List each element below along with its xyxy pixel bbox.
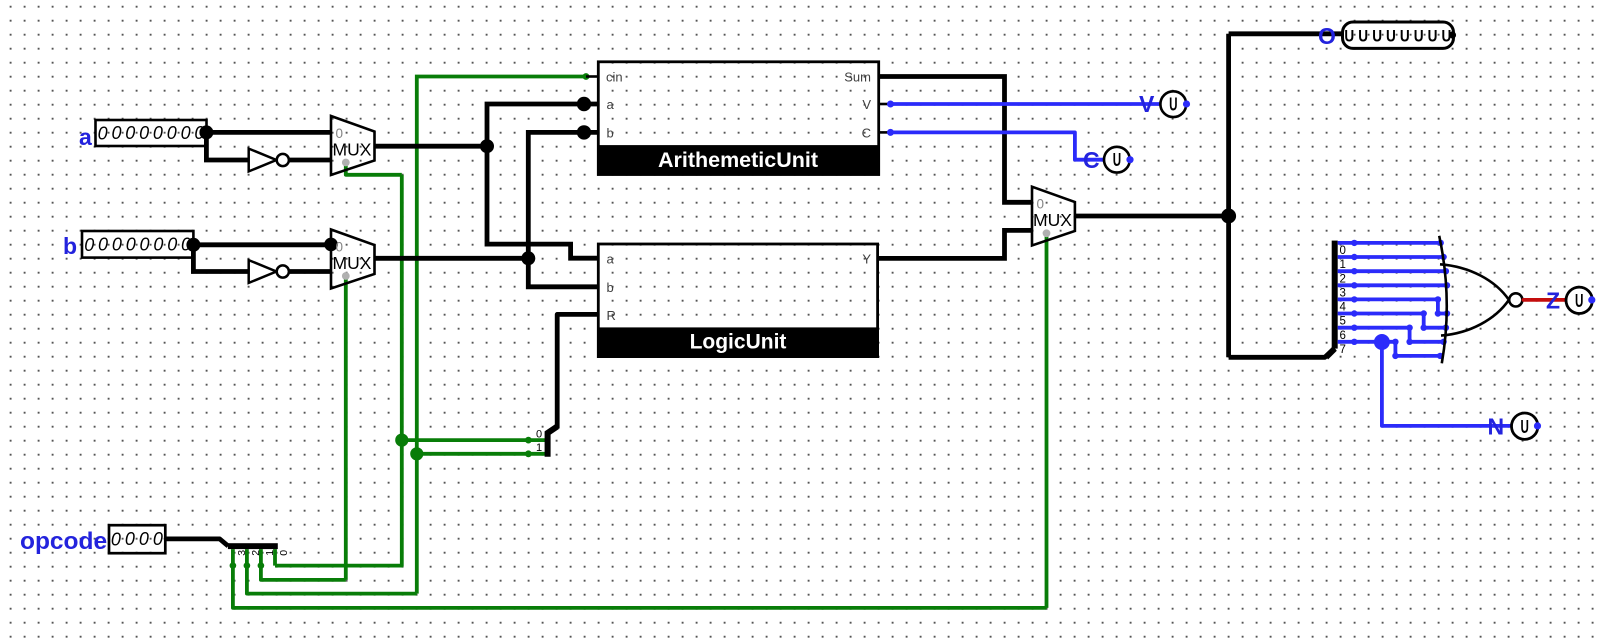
- svg-text:0: 0: [84, 235, 94, 255]
- wire Sum to MUX3 input0: [879, 77, 1032, 203]
- svg-text:0: 0: [126, 235, 136, 255]
- wire MUX1 select green: [346, 164, 402, 175]
- junction bit7: [1374, 334, 1390, 350]
- probe V value: [1169, 95, 1177, 115]
- wire MUX3 output: [1075, 214, 1229, 219]
- NOR gate U6 body: [1440, 264, 1509, 335]
- probe V circle: [1160, 91, 1186, 117]
- svg-text:0: 0: [181, 123, 191, 143]
- wire a down to NOT gate: [206, 132, 248, 160]
- probe N pin dot: [1534, 422, 1541, 429]
- svg-text:ArithemeticUnit: ArithemeticUnit: [658, 148, 818, 172]
- LogicUnit U5 body: [598, 244, 877, 357]
- wire Y to MUX3 input1: [878, 230, 1032, 258]
- wire NOT b to MUX2 input1: [289, 269, 331, 274]
- probe Z circle: [1566, 287, 1592, 313]
- opcode pin stubs green: [233, 549, 275, 566]
- wire b to MUX2 input0: [193, 242, 331, 247]
- V wire end dot: [887, 101, 894, 108]
- svg-text:0: 0: [125, 529, 135, 549]
- wire MUX2 net up to ALU b: [528, 132, 598, 258]
- wire MUX1 out up to ALU a: [487, 104, 598, 146]
- svg-text:0: 0: [139, 123, 149, 143]
- svg-text:MUX: MUX: [333, 140, 372, 160]
- svg-text:MUX: MUX: [1033, 210, 1072, 230]
- wire N blue: [1382, 342, 1511, 426]
- input b switch box: [82, 231, 193, 258]
- svg-text:opcode: opcode: [20, 528, 107, 555]
- wire MUX2 select green down: [344, 278, 348, 580]
- wire opcode to splitter: [165, 539, 228, 546]
- bus wire to O output: [1229, 31, 1343, 36]
- NOR jog corner dots: [1392, 296, 1441, 359]
- junction b: [186, 238, 200, 252]
- wire MUX1 output: [375, 144, 488, 149]
- cin stub: [586, 75, 598, 78]
- probe N value: [1520, 417, 1528, 437]
- svg-text:b: b: [607, 280, 614, 295]
- svg-text:0: 0: [125, 123, 135, 143]
- svg-text:0: 0: [139, 235, 149, 255]
- svg-text:MUX: MUX: [333, 253, 372, 273]
- splitter bus bar: [1332, 241, 1338, 349]
- splitter bit labels: [1340, 245, 1347, 356]
- svg-text:Y: Y: [862, 252, 871, 267]
- combiner stub 1: [528, 452, 545, 456]
- svg-text:0: 0: [167, 123, 177, 143]
- svg-text:U: U: [1358, 27, 1368, 46]
- probe Z value: [1575, 291, 1583, 311]
- svg-text:C: C: [862, 126, 871, 141]
- probe Z pin dot: [1588, 296, 1595, 303]
- junction MUX1 out: [480, 139, 494, 153]
- mux U2 body: [331, 230, 375, 289]
- mux U3 body: [1032, 187, 1075, 246]
- svg-text:U: U: [1520, 417, 1528, 437]
- svg-text:7: 7: [1340, 344, 1346, 356]
- combiner wire 1 end dot: [525, 450, 532, 457]
- junction b at MUX2 input0: [324, 238, 338, 252]
- svg-text:N: N: [1488, 414, 1505, 440]
- svg-text:0: 0: [153, 235, 163, 255]
- wire bit0: [1338, 241, 1441, 245]
- wire opcode bit1 to MUX2 select: [261, 566, 346, 580]
- NOR gate U6 bubble: [1509, 293, 1522, 306]
- wire MUX1 out down to LogicUnit a: [487, 146, 598, 258]
- combiner splitter input 0 wire green: [402, 438, 529, 442]
- svg-text:V: V: [1139, 91, 1155, 117]
- wire NOT a to MUX1 input1: [289, 158, 331, 163]
- svg-text:1: 1: [264, 550, 276, 556]
- svg-text:U: U: [1169, 95, 1177, 115]
- wire bit5: [1338, 314, 1446, 328]
- C pin stub: [879, 131, 891, 134]
- svg-text:U: U: [1428, 27, 1438, 46]
- wire bit6: [1338, 328, 1444, 342]
- junction green bit0: [395, 434, 408, 447]
- NOR input end dots: [1437, 240, 1450, 359]
- svg-text:0: 0: [112, 235, 122, 255]
- svg-text:a: a: [79, 124, 92, 150]
- svg-text:R: R: [607, 308, 616, 323]
- junction green bit2 line: [410, 447, 423, 460]
- mux U3 select pin dot: [1043, 229, 1051, 237]
- bus wire to splitter: [1229, 348, 1335, 357]
- svg-text:0: 0: [98, 235, 108, 255]
- wire MUX2 output: [375, 256, 529, 261]
- combiner splitter input 1 wire green: [417, 452, 529, 456]
- wire opcode bit3 to MUX3 select: [233, 566, 1047, 608]
- opcode pin end dots: [230, 562, 265, 569]
- svg-text:U: U: [1344, 27, 1354, 46]
- svg-text:U: U: [1386, 27, 1396, 46]
- svg-text:LogicUnit: LogicUnit: [690, 331, 787, 354]
- splitter pin end dots: [1351, 240, 1357, 345]
- junction MUX3 out bus: [1221, 209, 1236, 224]
- output O display box: [1343, 22, 1454, 48]
- svg-text:0: 0: [167, 235, 177, 255]
- combiner stub 0: [528, 438, 545, 442]
- input a bit values: [98, 123, 205, 144]
- svg-text:Z: Z: [1546, 288, 1560, 314]
- svg-text:0: 0: [111, 123, 121, 143]
- svg-text:b: b: [63, 233, 77, 259]
- svg-text:U: U: [1400, 27, 1410, 46]
- wire C blue: [891, 132, 1105, 159]
- svg-text:U: U: [1575, 291, 1583, 311]
- wire MUX3 select green down: [1045, 235, 1049, 608]
- probe V pin dot: [1183, 100, 1190, 107]
- svg-text:cin: cin: [606, 70, 623, 85]
- svg-text:0: 0: [139, 529, 149, 549]
- svg-text:Sum: Sum: [844, 70, 871, 85]
- mux U1 select pin dot: [342, 159, 350, 167]
- wire opcode bit2 to cin net: [247, 566, 417, 594]
- probe C circle: [1104, 147, 1130, 173]
- bus vertical wire: [1226, 34, 1231, 358]
- NOR gate U6 input arc: [1439, 236, 1447, 363]
- opcode bit values: [111, 529, 163, 550]
- NOT gate for a: [249, 149, 289, 172]
- probe C value: [1113, 151, 1121, 171]
- opcode switch box: [109, 525, 165, 553]
- junction MUX2 out: [521, 251, 535, 265]
- NOT gate for b: [249, 260, 289, 283]
- svg-text:3: 3: [236, 550, 248, 556]
- svg-text:O: O: [1318, 23, 1336, 49]
- svg-text:U: U: [1414, 27, 1424, 46]
- mux U2 select pin dot: [342, 272, 350, 280]
- svg-text:0: 0: [278, 550, 290, 556]
- input a switch box: [96, 120, 207, 146]
- V pin stub: [879, 103, 891, 106]
- svg-text:0: 0: [536, 429, 542, 441]
- output O pin dot: [1449, 31, 1456, 38]
- svg-text:a: a: [607, 97, 615, 112]
- wire combiner to LogicUnit R: [557, 314, 598, 428]
- svg-text:0: 0: [98, 124, 108, 144]
- wire opcode bit0 to MUX1 select: [275, 175, 402, 566]
- svg-text:1: 1: [536, 442, 542, 454]
- output O values: [1344, 27, 1451, 46]
- svg-text:C: C: [1083, 147, 1100, 173]
- opcode splitter pin labels: [236, 550, 290, 556]
- ArithmeticUnit U4 body: [598, 62, 878, 175]
- wire bit2: [1338, 269, 1446, 273]
- probe N circle: [1512, 413, 1538, 439]
- svg-text:2: 2: [250, 550, 262, 556]
- svg-text:b: b: [607, 126, 614, 141]
- mux U1 body: [331, 116, 375, 175]
- svg-text:V: V: [862, 97, 871, 112]
- C wire end dot: [887, 129, 894, 136]
- probe C pin dot: [1126, 156, 1133, 163]
- junction at ALU a pin: [577, 97, 591, 111]
- wire V blue: [891, 102, 1161, 106]
- wire cin green: [417, 77, 586, 594]
- wire bit7: [1338, 342, 1441, 356]
- splitter bar foot: [1326, 349, 1335, 358]
- svg-text:a: a: [607, 252, 615, 267]
- wire bit1: [1338, 255, 1444, 259]
- svg-text:0: 0: [153, 123, 163, 143]
- LogicUnit title bar: [597, 327, 879, 356]
- combiner splitter bar: [548, 427, 558, 457]
- opcode splitter bar: [228, 543, 278, 549]
- svg-text:U: U: [1372, 27, 1382, 46]
- svg-text:0: 0: [153, 529, 163, 549]
- wire Z red: [1524, 298, 1567, 302]
- cin wire end dot: [583, 73, 590, 80]
- wire MUX2 net down to LogicUnit b: [528, 258, 598, 287]
- wire b down to NOT gate: [193, 245, 248, 272]
- svg-text:U: U: [1113, 151, 1121, 171]
- combiner wire 0 end dot: [525, 437, 532, 444]
- wire a to MUX1 input0: [206, 130, 331, 135]
- input b bit values: [84, 235, 191, 256]
- junction at ALU b pin: [577, 125, 591, 139]
- wire bit3: [1338, 283, 1447, 287]
- svg-text:0: 0: [111, 530, 121, 550]
- ArithmeticUnit title bar: [597, 145, 880, 176]
- wire bit4: [1338, 299, 1447, 313]
- junction a: [199, 125, 213, 139]
